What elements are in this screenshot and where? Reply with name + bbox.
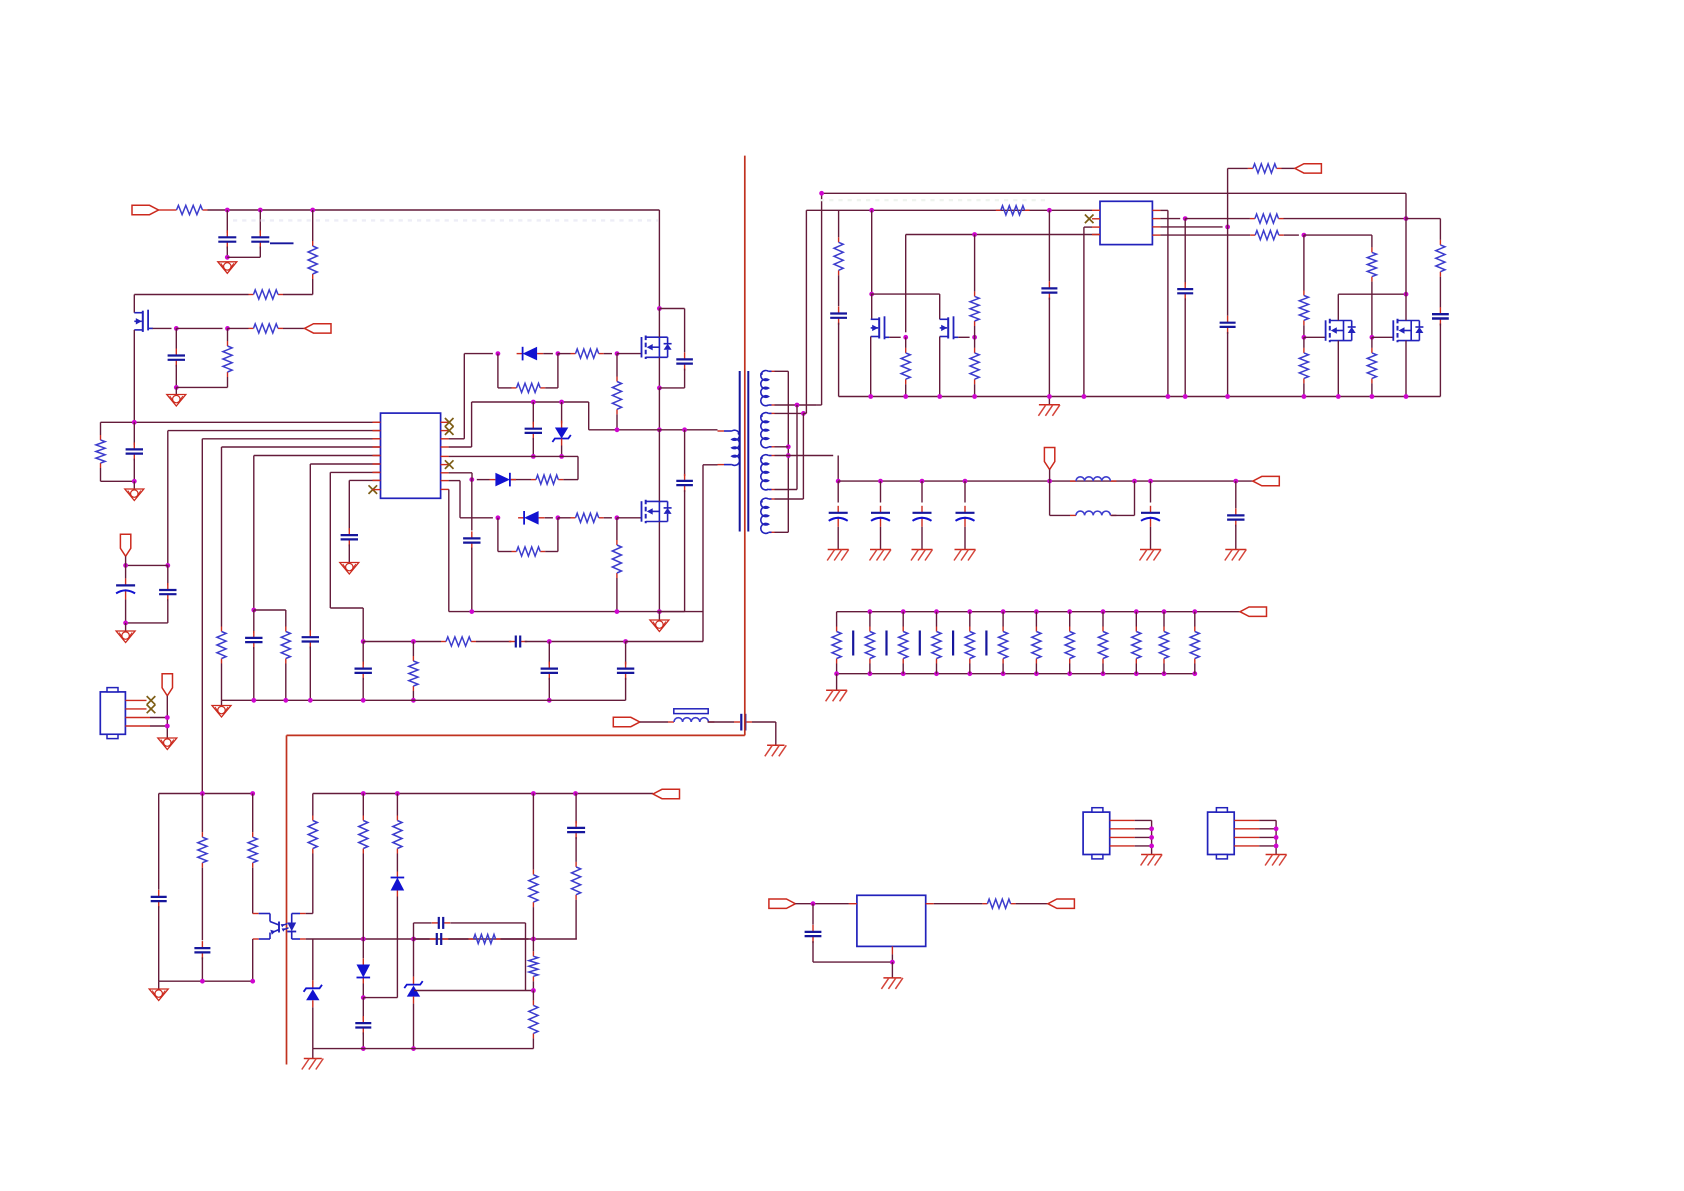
node bank top 8 bbox=[1067, 609, 1072, 614]
junction bbox=[165, 724, 170, 729]
connector J6 output sense bbox=[1044, 448, 1054, 470]
pin U2 left y218 bbox=[1092, 218, 1100, 220]
resistor R24 bbox=[1250, 231, 1284, 240]
connector CN2 body bbox=[1208, 808, 1235, 859]
wire bbox=[617, 353, 641, 355]
wire bbox=[254, 609, 286, 611]
wire bbox=[1439, 277, 1441, 308]
pin U4 out bbox=[926, 903, 934, 905]
node gate hi bbox=[615, 351, 620, 356]
capacitor C29 feedthrough bbox=[734, 714, 752, 731]
no-connect U1 R6 bbox=[445, 460, 454, 469]
wire bbox=[1102, 664, 1104, 674]
wire bbox=[134, 294, 248, 296]
wire HV rail bbox=[208, 209, 660, 211]
wire bus1 bbox=[822, 192, 1406, 194]
resistor RB3 bbox=[899, 627, 908, 664]
node bot rail C32 bbox=[361, 1046, 366, 1051]
capacitor C11 bbox=[159, 583, 176, 601]
wire bbox=[604, 517, 612, 519]
wire Z2 drop bbox=[312, 939, 314, 980]
node Vref caps bbox=[165, 563, 170, 568]
chassis ground CGND2 bbox=[827, 550, 849, 561]
wire bbox=[775, 446, 789, 448]
wire Qhi source bbox=[658, 358, 660, 389]
wire bbox=[659, 611, 684, 613]
wire CN2-4 bbox=[1259, 845, 1276, 847]
ghost dashes 2 bbox=[820, 199, 1050, 201]
wire bbox=[575, 793, 578, 795]
wire L2 out riser bbox=[1134, 481, 1136, 515]
capacitor C6 bbox=[302, 630, 319, 648]
wire bbox=[604, 353, 612, 355]
wire bbox=[1035, 664, 1037, 674]
wire comp run b bbox=[476, 641, 511, 643]
wire bbox=[532, 438, 534, 457]
junction bbox=[361, 698, 366, 703]
wire bbox=[837, 481, 839, 502]
node Qhi drain bbox=[657, 306, 662, 311]
wire RC top drop bbox=[525, 923, 527, 991]
wire bbox=[836, 664, 838, 674]
wire bbox=[362, 854, 364, 940]
connector J9 line input bbox=[613, 717, 640, 726]
capacitor CB2 bar bbox=[885, 631, 887, 656]
wire bbox=[253, 647, 255, 700]
node bank top 4 bbox=[934, 609, 939, 614]
resistor R6 bbox=[96, 435, 105, 468]
wire Ma source bbox=[870, 337, 872, 397]
no-connect U1 R2 bbox=[445, 426, 454, 435]
node reg gnd bbox=[890, 960, 895, 965]
transistor Q6 ORing FET A bbox=[1326, 319, 1356, 343]
IC U2 sync controller bbox=[1100, 201, 1152, 244]
node fb bus R29 bbox=[200, 791, 205, 796]
wire bbox=[532, 1038, 534, 1048]
wire bbox=[575, 794, 577, 824]
wire bbox=[921, 481, 923, 502]
node gnd rail x905 bbox=[903, 394, 908, 399]
node snub2 top bbox=[682, 427, 687, 432]
wire bbox=[167, 599, 169, 623]
wire U1 pin6 row bbox=[310, 463, 380, 465]
resistor R28 bbox=[1367, 348, 1376, 384]
wire Z3 drop bbox=[413, 939, 415, 977]
wire out drop bbox=[837, 456, 839, 482]
wire bbox=[312, 210, 314, 241]
wire bbox=[532, 402, 534, 424]
wire snub1 top bbox=[659, 308, 684, 310]
wire C30 drop bbox=[158, 794, 160, 890]
wire M2 source bbox=[1405, 341, 1407, 397]
resistor R30 bbox=[248, 832, 257, 868]
wire bbox=[201, 868, 203, 941]
transistor Q1 aux MOSFET bbox=[134, 310, 153, 332]
wire bbox=[150, 725, 167, 727]
wire sense riser bbox=[1227, 168, 1229, 227]
wire bbox=[227, 377, 229, 387]
wire CN0 gnd drop bbox=[166, 696, 168, 738]
node pin1 Q1 bbox=[132, 420, 137, 425]
wire bbox=[974, 337, 976, 348]
node bank bot 3 bbox=[901, 671, 906, 676]
wire red return stub bbox=[744, 714, 746, 736]
junction bbox=[283, 698, 288, 703]
capacitor CB4 bar bbox=[952, 631, 954, 656]
resistor R20 bbox=[970, 348, 979, 384]
wire primary return bbox=[702, 465, 704, 642]
wire U1 pin7 row bbox=[330, 471, 380, 473]
no-connect CN0-1 bbox=[147, 696, 156, 705]
node bank bot 7 bbox=[1034, 671, 1039, 676]
wire bbox=[348, 544, 350, 562]
node gnd rail x939 bbox=[937, 394, 942, 399]
pin U2 right y210 bbox=[1152, 209, 1160, 211]
capacitor C22 bbox=[1432, 307, 1449, 325]
wire bbox=[176, 327, 222, 329]
junction bbox=[251, 698, 256, 703]
capacitor C15 snubber bbox=[676, 474, 693, 492]
T1 S2 top lead bbox=[769, 412, 775, 414]
transformer T1 primary lead bottom bbox=[718, 464, 732, 466]
pin CN1-3 bbox=[1110, 836, 1135, 838]
transistor Q7 ORing FET B bbox=[1393, 319, 1423, 343]
chassis ground CGND5 bbox=[954, 550, 976, 561]
wire bbox=[449, 480, 460, 482]
node bank top 3 bbox=[901, 609, 906, 614]
wire bbox=[1111, 514, 1134, 516]
wire bbox=[1160, 226, 1222, 228]
resistor RB4 bbox=[932, 627, 941, 664]
wire bbox=[974, 384, 976, 396]
node bank bot 11 bbox=[1162, 671, 1167, 676]
wire bbox=[227, 328, 229, 341]
wire R41 top bbox=[412, 642, 414, 657]
node M2 column bbox=[1404, 216, 1409, 221]
node reg in bbox=[811, 901, 816, 906]
wire bbox=[1002, 664, 1004, 674]
resistor R33 bbox=[393, 816, 402, 854]
wire bbox=[905, 337, 907, 348]
wire pin5 drop bbox=[253, 456, 255, 611]
wire bbox=[1284, 234, 1299, 236]
node gnd rail x1083 bbox=[1082, 394, 1087, 399]
wire bbox=[838, 323, 840, 397]
wire CN2-3 bbox=[1259, 836, 1276, 838]
wire bbox=[1002, 612, 1004, 627]
pin CN1-4 bbox=[1110, 845, 1135, 847]
capacitor C2 bbox=[251, 230, 269, 248]
junction bbox=[1149, 835, 1154, 840]
ground GND4 bbox=[340, 563, 359, 575]
connector CN0 body bbox=[100, 688, 125, 739]
wire M1 drain row bbox=[1338, 293, 1406, 295]
resistor R22 bbox=[1248, 164, 1282, 173]
node rail C1 bbox=[225, 208, 230, 213]
wire clamp row bbox=[472, 401, 589, 403]
wire U2 gnd drop bbox=[1083, 227, 1085, 396]
node bank gnd bbox=[834, 671, 839, 676]
wire bbox=[133, 481, 135, 488]
wire bbox=[477, 479, 490, 481]
wire bbox=[1303, 325, 1305, 337]
resistor R36 bbox=[529, 951, 538, 981]
wire bank top rail bbox=[837, 611, 1240, 613]
wire pin9 drop bbox=[448, 489, 450, 611]
wire bbox=[309, 647, 311, 701]
wire bbox=[306, 913, 313, 915]
wire bbox=[869, 612, 871, 627]
wire bbox=[703, 464, 718, 466]
wire bbox=[1371, 337, 1373, 348]
pin U1 left y455 bbox=[373, 455, 381, 457]
chassis ground CGND6 bbox=[1140, 550, 1162, 561]
wire comp run2 bbox=[626, 641, 703, 643]
connector J5 sense bbox=[1295, 164, 1322, 173]
wire bbox=[817, 404, 822, 406]
wire bbox=[362, 939, 364, 958]
wire Q1 source down bbox=[133, 330, 135, 422]
wire opto C bbox=[252, 868, 254, 914]
wire bbox=[658, 309, 660, 338]
diode D3 bbox=[518, 511, 545, 525]
pin CN2-1 bbox=[1234, 819, 1259, 821]
pin U1 right y456 bbox=[441, 455, 449, 457]
resistor R8 bbox=[281, 627, 290, 664]
capacitor C7 bbox=[355, 662, 372, 680]
node bank bot 2 bbox=[868, 671, 873, 676]
node gnd rail x1371 bbox=[1370, 394, 1375, 399]
pin U1 right y447 bbox=[441, 446, 449, 448]
node bank bot 5 bbox=[967, 671, 972, 676]
node C4 R6 gnd bbox=[132, 479, 137, 484]
node gnd rail x1406 bbox=[1404, 394, 1409, 399]
wire bbox=[498, 551, 512, 553]
node snub1 bbox=[657, 386, 662, 391]
node L pair in bbox=[1047, 479, 1052, 484]
wire bbox=[501, 938, 529, 940]
pin U2 left y227 bbox=[1092, 226, 1100, 228]
node S2b bbox=[786, 444, 791, 449]
wire bbox=[125, 599, 127, 623]
wire bbox=[684, 369, 686, 388]
chassis ground CGND8 bbox=[826, 690, 848, 701]
wire fb drop bbox=[577, 456, 579, 479]
wire bbox=[283, 294, 313, 296]
wire bbox=[158, 906, 160, 981]
wire C38 bot bbox=[548, 678, 550, 701]
wire Ma drain bbox=[871, 294, 873, 319]
resistor RB6 bbox=[999, 627, 1008, 664]
resistor RB7 bbox=[1032, 627, 1041, 664]
wire Q1 drain bbox=[133, 295, 135, 313]
pin U2 right y218 bbox=[1152, 218, 1160, 220]
wire bbox=[889, 336, 900, 338]
wire clamp riser bbox=[471, 402, 473, 447]
wire bbox=[1303, 383, 1305, 396]
resistor R23 bbox=[1436, 240, 1445, 277]
wire bbox=[125, 565, 127, 578]
transformer T1 secondary winding S3 bbox=[760, 455, 768, 490]
resistor RB5 bbox=[965, 627, 974, 664]
node D1 R9 bbox=[556, 351, 561, 356]
wire bbox=[1150, 481, 1152, 502]
C2 polarity dash bbox=[270, 242, 294, 244]
node bank top 12 bbox=[1192, 609, 1197, 614]
node bus2 C19 bbox=[1047, 208, 1052, 213]
wire bbox=[1304, 336, 1325, 338]
capacitor C5 bbox=[245, 631, 262, 649]
wire bbox=[891, 954, 893, 962]
capacitor C25 electrolytic bbox=[913, 506, 932, 527]
wire bbox=[1069, 612, 1071, 627]
wire bbox=[708, 721, 734, 723]
node bus R41 bbox=[411, 698, 416, 703]
wire CN1-2 bbox=[1135, 828, 1152, 830]
wire bbox=[684, 490, 686, 611]
wire bbox=[362, 998, 364, 1021]
transformer T1 core bbox=[740, 371, 749, 532]
wire bbox=[543, 353, 553, 355]
resistor R31 bbox=[308, 816, 317, 854]
wire bbox=[460, 517, 493, 519]
no-connect U2 bbox=[1085, 215, 1094, 224]
capacitor C27 electrolytic bbox=[1141, 506, 1160, 527]
wire M2 column top bbox=[1405, 193, 1407, 294]
wire bbox=[1048, 298, 1050, 397]
wire bbox=[101, 480, 135, 482]
capacitor C26 electrolytic bbox=[956, 506, 975, 527]
wire bbox=[1049, 470, 1051, 482]
resistor RB8 bbox=[1065, 627, 1074, 664]
resistor R10 bbox=[571, 349, 604, 358]
capacitor C16 bbox=[830, 307, 847, 325]
transformer T1 primary lead top bbox=[718, 430, 732, 432]
node S3t bbox=[786, 453, 791, 458]
wire bbox=[545, 387, 558, 389]
wire bbox=[362, 608, 364, 642]
wire bbox=[414, 938, 430, 940]
node bank bot 4 bbox=[934, 671, 939, 676]
wire bbox=[226, 210, 228, 233]
pin U1 right y464 bbox=[441, 464, 449, 466]
capacitor C18 bbox=[1177, 282, 1193, 300]
node bank bot 6 bbox=[1001, 671, 1006, 676]
node comp branch bbox=[361, 639, 366, 644]
wire output rail bbox=[838, 480, 1253, 482]
chassis ground CGND3 bbox=[870, 550, 892, 561]
wire S1b S3b tie bbox=[796, 405, 798, 490]
wire bbox=[1069, 664, 1071, 674]
wire bbox=[1050, 514, 1070, 516]
node D2 pin7 bbox=[469, 477, 474, 482]
wire fb bus left bbox=[159, 793, 253, 795]
wire bbox=[1102, 612, 1104, 627]
zener Z2 bbox=[304, 980, 322, 1007]
wire bbox=[775, 489, 798, 491]
wire bbox=[449, 438, 465, 440]
node bank top 9 bbox=[1101, 609, 1106, 614]
wire fb gnd rail bbox=[159, 980, 253, 982]
wire red return horizontal bbox=[287, 734, 745, 736]
capacitor C20 bbox=[1220, 316, 1236, 334]
diode D5 bbox=[391, 872, 405, 897]
ground GND6 bbox=[116, 631, 135, 643]
resistor R27 bbox=[1299, 348, 1308, 384]
capacitor C3 bbox=[168, 349, 185, 367]
node S1b riser bbox=[795, 403, 800, 408]
wire bbox=[1160, 234, 1250, 236]
wire bbox=[838, 275, 840, 306]
capacitor CB3 bar bbox=[919, 631, 921, 656]
node Z1 bottom bbox=[559, 454, 564, 459]
wire bbox=[201, 957, 203, 981]
wire comp run a bbox=[363, 641, 441, 643]
capacitor C32 bbox=[355, 1016, 371, 1034]
resistor RB10 bbox=[1132, 627, 1141, 664]
pin J1 stub bbox=[159, 209, 172, 211]
pin U2 left y234 bbox=[1092, 234, 1100, 236]
wire bbox=[396, 794, 398, 816]
wire bbox=[958, 336, 969, 338]
wire red primary-return vertical bbox=[744, 156, 746, 714]
wire bbox=[100, 468, 102, 481]
chassis ground CGND11 bbox=[881, 978, 903, 989]
node C10 C11 gnd bbox=[123, 621, 128, 626]
wire bbox=[362, 794, 364, 816]
capacitor CB1 bar bbox=[852, 631, 854, 656]
resistor R19 bbox=[970, 291, 979, 326]
wire bbox=[775, 370, 789, 372]
wire bbox=[396, 897, 398, 998]
resistor R16 bbox=[996, 206, 1030, 215]
node gnd rail x1185 bbox=[1183, 394, 1188, 399]
wire bbox=[775, 498, 804, 500]
wire bbox=[936, 612, 938, 627]
wire bbox=[285, 610, 287, 627]
capacitor C4 bbox=[126, 442, 143, 460]
node comp C38 bbox=[547, 639, 552, 644]
ground GND9 bbox=[149, 989, 168, 1001]
wire bbox=[201, 794, 203, 833]
transistor Q5 sync FET B bbox=[940, 316, 959, 339]
wire bbox=[167, 565, 169, 585]
wire bbox=[974, 326, 976, 337]
capacitor C37 bbox=[509, 636, 527, 648]
no-connect U1 R1 bbox=[445, 418, 454, 427]
capacitor C31 bbox=[194, 941, 210, 959]
wire bbox=[448, 488, 450, 490]
capacitor C12 bbox=[525, 422, 542, 440]
ground GND7 bbox=[158, 738, 177, 750]
wire bbox=[616, 518, 618, 540]
node row RC bbox=[411, 937, 416, 942]
wire bbox=[1194, 612, 1196, 627]
wire RC riser bbox=[413, 923, 415, 939]
wire bbox=[1035, 612, 1037, 627]
resistor R29 bbox=[198, 832, 207, 868]
inductor L1 bbox=[1070, 477, 1116, 481]
node D1 anode bbox=[496, 351, 501, 356]
capacitor C23 electrolytic bbox=[829, 506, 848, 527]
wire bbox=[561, 402, 563, 424]
resistor R1 bbox=[172, 205, 208, 214]
capacitor C34 bbox=[432, 917, 450, 929]
wire bbox=[471, 548, 473, 612]
wire bbox=[312, 1049, 314, 1059]
wire primary gnd bus bbox=[449, 611, 703, 613]
node C1 C2 gnd bbox=[225, 255, 230, 260]
